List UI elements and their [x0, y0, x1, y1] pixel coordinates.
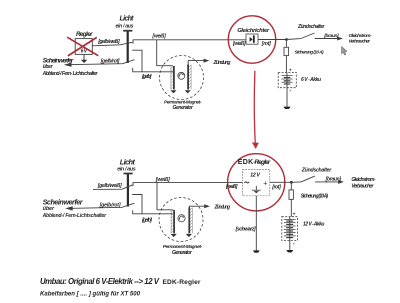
svg-text:Sicherung (10 A): Sicherung (10 A): [295, 50, 324, 55]
switch contact tick (weiss output): [132, 40, 134, 44]
switch contact hook bottom: [132, 195, 142, 214]
red circle around Gleichrichter: [228, 16, 275, 63]
svg-text:6 V - Akku: 6 V - Akku: [301, 77, 321, 83]
switch S2 Licht actuator bar: [124, 173, 133, 207]
svg-text:Abblend-/ Fern-Lichtschalter: Abblend-/ Fern-Lichtschalter: [42, 213, 108, 219]
svg-text:[gelb/weiß]: [gelb/weiß]: [97, 183, 122, 189]
wire node A down to fuse: [285, 40, 287, 73]
title line 1: [40, 277, 201, 286]
svg-text:ein / aus: ein / aus: [116, 24, 134, 30]
svg-text:Kabelfarben [ .... ] gültig fü: Kabelfarben [ .... ] gültig für XT 500: [40, 291, 141, 297]
ground symbol inside EDK box: [252, 186, 261, 193]
svg-text:Verbraucher: Verbraucher: [349, 39, 372, 44]
pin ~ label: [244, 182, 249, 183]
wire gelb/rot with arrow to Scheinwerfer: [64, 60, 135, 67]
svg-text:-: -: [290, 88, 292, 94]
svg-text:Generator: Generator: [172, 250, 193, 256]
svg-text:Zündung: Zündung: [214, 204, 231, 210]
svg-text:Gleichstrom-: Gleichstrom-: [349, 33, 372, 38]
label Scheinwerfer bottom: [42, 197, 108, 219]
red cross over Regler: [67, 37, 98, 56]
label Permanent-Magnet-Generator: [164, 99, 202, 111]
svg-text:[gelb/rot]: [gelb/rot]: [99, 202, 121, 208]
rotor symbol bottom: [178, 215, 185, 222]
svg-text:ein / aus: ein / aus: [117, 167, 136, 173]
svg-text:[weiß]: [weiß]: [225, 184, 238, 190]
svg-text:[gelb/weiß]: [gelb/weiß]: [97, 39, 120, 45]
svg-text:[rot]: [rot]: [271, 184, 281, 190]
wire gelb/weiss open end (regler removed): [93, 185, 132, 190]
svg-text:Zündschalter: Zündschalter: [297, 24, 326, 30]
wire to Zündung bottom with arrow: [189, 204, 210, 208]
label Scheinwerfer: [42, 58, 99, 78]
switch S1 Licht actuator bar: [123, 30, 132, 63]
svg-text:Scheinwerfer: Scheinwerfer: [43, 197, 84, 206]
wire rot EDK to node B: [270, 181, 292, 183]
node A junction dot: [285, 38, 288, 41]
svg-text:[braun]: [braun]: [323, 33, 339, 39]
svg-text:Sicherung (10 A): Sicherung (10 A): [301, 194, 329, 200]
wire weiss tap down to generator coil: [157, 40, 173, 66]
switch contact tick (weiss output, bottom): [132, 182, 134, 186]
wire weiss tap down to coil bottom: [157, 182, 173, 209]
mouse cursor: [342, 46, 347, 55]
svg-text:Zündschalter: Zündschalter: [301, 167, 332, 173]
label Gleichstrom-Verbraucher bottom: [351, 177, 375, 189]
label Permanent-Magnet-Generator bottom: [163, 244, 203, 256]
svg-text:Generator: Generator: [173, 105, 195, 111]
svg-text:[schwarz]: [schwarz]: [235, 226, 256, 232]
regler R (6V) crossed out: [75, 31, 93, 54]
ground below battery (bottom): [286, 250, 293, 252]
EDK regulator U1 box: [243, 170, 270, 196]
rectifier D1 box: [246, 34, 258, 44]
svg-text:+: +: [293, 212, 296, 217]
wire gelb/weiss: Regler to light switch: [92, 42, 132, 46]
svg-text:Zündung: Zündung: [213, 60, 232, 66]
svg-text:Licht: Licht: [120, 157, 136, 166]
wire to Zündung with arrow: [188, 59, 209, 65]
svg-text:+: +: [289, 68, 292, 73]
svg-text:12 V - Akku: 12 V - Akku: [303, 222, 325, 228]
wire schwarz from EDK box down: [255, 196, 257, 251]
svg-text:über: über: [43, 206, 55, 212]
rotor symbol: [178, 72, 185, 79]
svg-text:[weiß]: [weiß]: [151, 34, 166, 40]
svg-text:-: -: [293, 241, 295, 247]
svg-text:+: +: [263, 180, 267, 187]
ground below battery (top): [283, 107, 290, 109]
battery 12V plates: [284, 219, 296, 237]
battery B2 12V dashed box: [282, 217, 298, 241]
ground below ignition coil: [185, 90, 191, 93]
svg-text:[weiß]: [weiß]: [232, 41, 246, 47]
svg-text:EDK: EDK: [238, 159, 254, 166]
wire node B down to fuse bottom: [290, 182, 292, 216]
svg-text:über: über: [43, 64, 54, 70]
wire braun with arrow to Gleichstrom-Verbraucher: [315, 37, 343, 41]
generator G2 dashed circle: [159, 198, 203, 242]
svg-text:[gelb]: [gelb]: [141, 217, 153, 223]
svg-text:-Regler: -Regler: [253, 159, 271, 166]
wire battery to ground bottom: [289, 238, 291, 251]
svg-text:Verbraucher: Verbraucher: [351, 183, 374, 189]
generator lighting coil (left): [171, 66, 175, 90]
svg-text:[gelb]: [gelb]: [141, 74, 152, 80]
generator lighting coil bottom: [171, 210, 175, 234]
wire rectifier to node A: [258, 39, 287, 41]
wire gelb/rot with arrow to Scheinwerfer bottom: [65, 203, 134, 210]
battery 6V plates: [282, 76, 293, 84]
Zündschalter switch (top): [287, 33, 315, 40]
wire weiss horizontal top row: [133, 39, 246, 41]
wire battery to ground: [286, 84, 288, 107]
switch contact hook (gelb feed): [132, 50, 142, 72]
node B junction dot: [290, 181, 293, 184]
fuse F2 (bottom): [289, 190, 293, 200]
battery wire through: [286, 73, 288, 85]
svg-text:Gleichstrom-: Gleichstrom-: [351, 177, 375, 183]
svg-text:[rot]: [rot]: [261, 41, 271, 47]
svg-text:Regler: Regler: [76, 31, 93, 38]
wire gelb: switch to generator coil: [133, 68, 173, 72]
wire braun bottom with arrow: [315, 180, 344, 184]
svg-text:[weiß]: [weiß]: [155, 177, 170, 183]
ground below lighting coil bottom: [171, 234, 177, 237]
svg-text:[braun]: [braun]: [325, 177, 342, 183]
svg-text:Permanent-Magnet-: Permanent-Magnet-: [164, 99, 202, 104]
generator ignition coil (right): [187, 65, 191, 90]
fuse F1 (top): [284, 47, 289, 55]
svg-text:Abblend-/ Fern- Lichtschalter: Abblend-/ Fern- Lichtschalter: [42, 71, 99, 77]
label Gleichstrom-Verbraucher: [349, 33, 372, 43]
battery wire through bottom: [289, 217, 291, 238]
svg-text:EDK-Regler: EDK-Regler: [163, 279, 201, 286]
ground below Regler: [81, 54, 88, 63]
ground below EDK schwarz wire: [253, 250, 260, 252]
label Licht ein/aus (top switch): [116, 16, 135, 30]
svg-text:[gelb/rot]: [gelb/rot]: [100, 59, 120, 65]
svg-text:Licht: Licht: [120, 16, 135, 23]
generator ignition coil bottom: [188, 207, 192, 233]
svg-text:Gleichrichter: Gleichrichter: [237, 28, 270, 34]
red arrow from Gleichrichter to EDK-Regler: [252, 71, 259, 149]
wire gelb to generator coil bottom: [133, 210, 173, 214]
generator G1 dashed circle: [160, 56, 204, 100]
red circle around EDK-Regler: [228, 154, 285, 211]
ground below lighting coil: [170, 90, 176, 93]
wire weiss horizontal bottom row: [133, 181, 243, 183]
ground below ignition coil bottom: [186, 234, 192, 237]
label Licht ein/aus (bottom switch): [117, 157, 136, 172]
svg-text:12 V: 12 V: [250, 172, 260, 178]
svg-text:Umbau: Original 6 V-Elektrik -: Umbau: Original 6 V-Elektrik --> 12 V: [40, 277, 160, 286]
Zündschalter switch (bottom): [291, 176, 314, 182]
battery B1 6V dashed box: [278, 73, 296, 88]
label EDK-Regler: [238, 159, 271, 166]
